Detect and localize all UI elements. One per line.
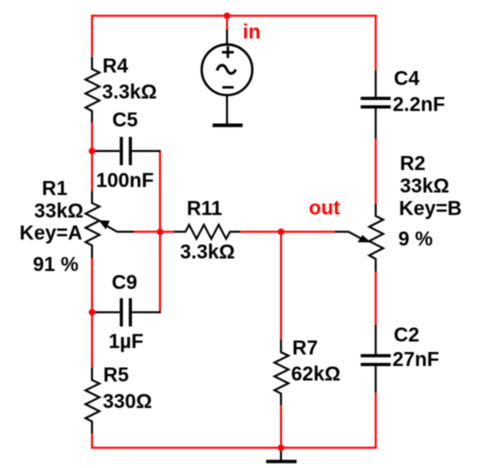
svg-text:in: in — [243, 22, 261, 44]
svg-text:R2: R2 — [400, 153, 426, 175]
svg-text:330Ω: 330Ω — [103, 391, 152, 413]
svg-text:out: out — [309, 198, 340, 220]
wire right vertical R2 to C2 — [375, 272, 377, 326]
svg-text:27nF: 27nF — [393, 349, 440, 371]
ground below source — [213, 124, 243, 128]
svg-text:C5: C5 — [112, 109, 138, 131]
node junction out — [278, 229, 285, 236]
wire R11 to out node and R2 wiper — [240, 231, 335, 233]
svg-text:R5: R5 — [103, 365, 129, 387]
wire left vertical R1 to R5 — [91, 258, 93, 368]
capacitor C4 — [361, 70, 391, 138]
wire left vertical above R4 — [91, 15, 93, 57]
node junction bottom ground — [278, 445, 285, 452]
svg-text:R4: R4 — [103, 56, 129, 78]
svg-text:3.3kΩ: 3.3kΩ — [102, 81, 157, 103]
resistor R4 — [86, 57, 100, 123]
capacitor C9 — [92, 298, 161, 326]
node junction A (wiper/C5/C9/R11) — [157, 229, 164, 236]
svg-text:C9: C9 — [112, 272, 138, 294]
capacitor C5 — [92, 137, 161, 165]
resistor R7 — [275, 339, 289, 405]
wire R1 wiper red — [134, 231, 160, 233]
svg-text:33kΩ: 33kΩ — [34, 200, 83, 222]
ground bottom — [266, 448, 296, 463]
svg-text:C2: C2 — [394, 324, 420, 346]
wire node A to R11 — [160, 231, 174, 233]
svg-text:33kΩ: 33kΩ — [400, 176, 449, 198]
wire right vertical C4 to R2 — [375, 139, 377, 204]
node junction top (source) — [224, 13, 231, 20]
potentiometer R2 body — [369, 204, 383, 272]
svg-text:Key=B: Key=B — [399, 198, 462, 220]
node junction C9 left — [89, 309, 96, 316]
wire left vertical R4 to R1 — [91, 123, 93, 191]
wire bottom net (red horizontal) — [91, 447, 377, 449]
svg-text:1µF: 1µF — [109, 331, 144, 353]
potentiometer R2 wiper arrow — [335, 232, 371, 243]
wire left vertical below R5 — [91, 434, 93, 449]
wire out node down to R7 — [280, 232, 282, 339]
svg-text:C4: C4 — [394, 68, 420, 90]
ac source V1 — [202, 29, 253, 124]
potentiometer R1 body — [86, 191, 100, 258]
wire right vertical below C2 — [375, 393, 377, 449]
svg-text:62kΩ: 62kΩ — [291, 364, 340, 386]
svg-text:9 %: 9 % — [398, 229, 433, 251]
svg-text:Key=A: Key=A — [20, 222, 83, 244]
svg-text:R7: R7 — [292, 338, 318, 360]
svg-text:3.3kΩ: 3.3kΩ — [180, 242, 235, 264]
node junction C5 left — [89, 148, 96, 155]
svg-text:100nF: 100nF — [96, 170, 154, 192]
svg-text:R1: R1 — [42, 178, 68, 200]
resistor R11 — [174, 225, 240, 239]
wire source stub red — [226, 15, 228, 29]
wire C5-C9 right vertical — [159, 150, 161, 313]
svg-text:91 %: 91 % — [33, 254, 79, 276]
svg-text:2.2nF: 2.2nF — [393, 94, 445, 116]
wire top net (red horizontal) — [91, 15, 377, 17]
potentiometer R1 wiper arrow — [99, 220, 134, 232]
resistor R5 — [86, 368, 100, 434]
wire right vertical above C4 — [375, 15, 377, 70]
capacitor C2 — [361, 325, 391, 393]
svg-text:R11: R11 — [187, 198, 223, 220]
wire R7 to bottom net — [280, 405, 282, 448]
